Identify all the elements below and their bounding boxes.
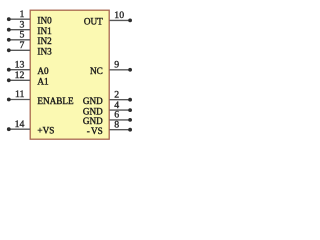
pin 8 terminal dot [128,128,132,132]
svg-text:GND: GND [83,96,103,106]
pin 4 terminal dot [128,108,132,112]
pin 14 +VS wire [9,128,30,130]
svg-text:9: 9 [114,60,119,71]
svg-text:2: 2 [114,90,119,101]
svg-text:A0: A0 [37,66,49,76]
pin 11 terminal dot [7,98,11,102]
pin 9 terminal dot [128,68,132,72]
svg-text:ENABLE: ENABLE [37,96,74,106]
svg-text:A1: A1 [37,77,49,87]
pin 13 terminal dot [7,68,11,72]
svg-text:IN0: IN0 [37,16,52,26]
svg-text:7: 7 [19,40,24,51]
pin 13 A0 wire [9,69,30,71]
pin 12 terminal dot [7,78,11,82]
svg-text:NC: NC [90,66,103,76]
pin 2 GND wire [110,99,131,101]
pin 3 IN1 wire [9,29,30,31]
pin 5 terminal dot [7,38,11,42]
pin 6 GND wire [110,119,131,121]
pin 5 IN2 wire [9,39,30,41]
pin 7 terminal dot [7,48,11,52]
svg-text:10: 10 [114,10,124,21]
svg-text:14: 14 [15,119,25,130]
svg-text:11: 11 [15,89,25,100]
svg-text:8: 8 [114,120,119,131]
pin 1 IN0 wire [9,18,30,20]
pin 3 terminal dot [7,28,11,32]
svg-text:+VS: +VS [37,126,54,136]
pin 9 NC wire [110,69,131,71]
svg-text:IN3: IN3 [37,47,52,57]
pin 10 OUT wire [110,19,131,21]
svg-text:GND: GND [83,106,103,116]
pin 4 GND wire [110,109,131,111]
svg-text:1: 1 [19,9,24,20]
pin 2 terminal dot [128,98,132,102]
svg-text:GND: GND [83,116,103,126]
pin 7 IN3 wire [9,49,30,51]
pin 14 terminal dot [7,127,11,131]
pin 1 terminal dot [7,17,11,21]
svg-text:OUT: OUT [84,17,103,27]
svg-text:12: 12 [15,70,25,81]
svg-text:IN2: IN2 [37,36,52,46]
pin 6 terminal dot [128,118,132,122]
IC U1 body [30,10,109,139]
svg-text:-VS: -VS [87,126,103,136]
pin 12 A1 wire [9,79,30,81]
pin 10 terminal dot [128,19,132,23]
pin 11 ENABLE wire [9,99,30,101]
svg-text:13: 13 [15,59,25,70]
svg-text:IN1: IN1 [37,26,52,36]
svg-text:5: 5 [19,29,24,40]
pin 8 -VS wire [110,129,131,131]
